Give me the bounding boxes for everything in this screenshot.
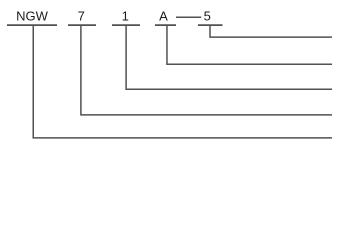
underline 1 [112, 24, 140, 26]
wire leader 5 [210, 25, 332, 37]
dash between A and 5 [176, 16, 201, 18]
label 5 [204, 9, 211, 24]
wire leader A [167, 25, 332, 65]
svg-text:1: 1 [122, 9, 129, 24]
svg-text:A: A [159, 9, 168, 24]
underline 7 [68, 24, 96, 26]
svg-text:NGW: NGW [16, 9, 49, 24]
label 1 [122, 9, 129, 24]
wire leader NGW [33, 25, 332, 138]
wire leader 7 [81, 25, 332, 115]
underline 5 [198, 24, 223, 26]
svg-text:7: 7 [78, 9, 85, 24]
label A [159, 9, 168, 24]
wire leader 1 [126, 25, 332, 90]
svg-text:5: 5 [204, 9, 211, 24]
label 7 [78, 9, 85, 24]
underline NGW [7, 24, 57, 26]
label NGW [16, 9, 49, 24]
underline A [155, 24, 176, 26]
